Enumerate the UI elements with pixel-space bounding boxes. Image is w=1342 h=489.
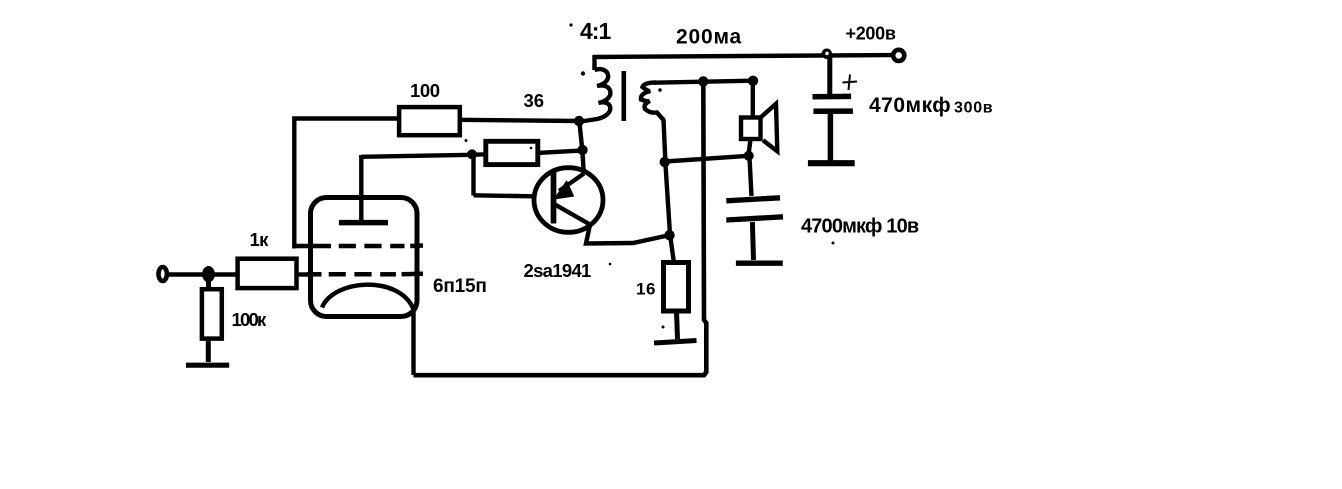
resistor R100k box	[202, 289, 222, 338]
ground under C2	[736, 261, 783, 266]
capacitor C2 lower lead	[752, 222, 753, 260]
svg-text:100: 100	[410, 80, 440, 101]
svg-text:16: 16	[636, 280, 656, 299]
node: primary bottom / 100 right	[574, 116, 584, 126]
transformer T1 primary winding	[581, 69, 610, 121]
node: anode / base junction	[467, 149, 477, 159]
speck	[658, 88, 662, 92]
node: B+ junction	[822, 49, 833, 60]
transistor Q1 2sa1941 circle	[534, 168, 603, 233]
terminal: +200v	[893, 50, 904, 61]
wire: base branch right to transistor	[474, 195, 534, 196]
node: secondary bottom	[660, 157, 670, 167]
transistor Q1 base bar	[551, 173, 557, 224]
wire: speaker bottom to secondary bottom	[665, 156, 749, 162]
capacitor C2 plate bottom	[726, 217, 783, 220]
transistor Q1 emitter line	[559, 174, 584, 192]
resistor R100k lead bottom	[206, 339, 211, 362]
svg-text:4:1: 4:1	[580, 18, 611, 44]
wire: secondary top to speaker column	[654, 81, 753, 83]
speck	[569, 23, 572, 26]
speaker lead top	[751, 81, 755, 118]
wire: secondary bottom down to emitter node	[665, 162, 670, 235]
transistor Q1 collector line	[555, 205, 590, 225]
tube V1 cathode arc	[322, 285, 415, 311]
wire: long right-hand return (vertical + bottom)	[414, 82, 707, 376]
wire: anode horizontal	[361, 155, 472, 157]
speck	[832, 242, 835, 245]
resistor R100k lead top	[206, 276, 211, 289]
transformer T1 primary lead from rail	[592, 55, 596, 70]
svg-text:6п15п: 6п15п	[433, 276, 487, 297]
wire: R36 left stub	[472, 152, 486, 157]
resistor R16 lead top	[670, 235, 674, 264]
tube V1 control grid (dashed)	[307, 272, 423, 277]
wire: top mid rail from left column to 100	[294, 119, 399, 249]
svg-text:470мкф: 470мкф	[869, 94, 951, 117]
speaker lead bottom	[749, 139, 751, 155]
resistor R100 box	[399, 107, 460, 135]
wire: R100 right to primary-bottom node	[460, 120, 579, 121]
capacitor C1 polarity plus	[843, 82, 858, 83]
speck	[465, 139, 468, 142]
resistor R1k box	[238, 259, 297, 288]
node: emitter junction	[664, 230, 674, 240]
speaker box	[741, 118, 761, 140]
resistor R16 lead bottom	[677, 311, 678, 339]
wire: emitter lead up to 36 node	[582, 150, 584, 174]
wire: cathode lead down to bottom rail	[411, 306, 415, 375]
speck	[530, 147, 533, 150]
svg-text:100к: 100к	[232, 309, 267, 330]
wire: anode lead into tube	[359, 155, 363, 221]
wire: 36 node up to primary bottom node	[579, 121, 582, 150]
transformer T1 secondary winding	[641, 83, 665, 161]
resistor R36 box	[486, 141, 538, 164]
svg-text:300в: 300в	[954, 100, 993, 117]
speck	[662, 326, 665, 329]
capacitor C2 plate top	[726, 198, 780, 201]
node: speaker bottom	[744, 151, 754, 161]
input terminal	[159, 267, 167, 281]
tube V1 screen grid (dashed)	[293, 243, 423, 248]
transformer T1 core	[622, 71, 627, 121]
svg-text:4700мкф 10в: 4700мкф 10в	[801, 216, 919, 238]
resistor R16 box	[664, 263, 689, 312]
speck	[581, 71, 585, 75]
transistor Q1 emitter arrowhead	[556, 183, 573, 199]
ground under C1	[808, 160, 855, 166]
node: speaker top	[748, 76, 758, 86]
ground under R100k	[186, 363, 229, 368]
wire: R36 right to emitter-top node	[537, 151, 581, 153]
capacitor C1 plate bottom	[813, 108, 853, 114]
svg-text:2sa1941: 2sa1941	[524, 260, 592, 281]
node: emitter top / 36 right	[577, 145, 587, 155]
tube V1 anode plate	[339, 220, 388, 226]
svg-text:200ма: 200ма	[676, 26, 742, 49]
node: secondary top / output rail	[698, 76, 708, 86]
tube V1 envelope	[311, 198, 418, 317]
svg-text:+200в: +200в	[846, 24, 896, 44]
speck	[609, 263, 612, 266]
node: input junction	[202, 266, 215, 282]
svg-text:36: 36	[524, 90, 545, 111]
svg-text:1к: 1к	[250, 229, 270, 250]
wire: base branch down	[471, 157, 475, 196]
ground under R16	[654, 341, 697, 344]
capacitor C2 4700mkf top lead	[750, 158, 752, 197]
wire: collector lead down and right	[586, 225, 670, 244]
capacitor C1 plate top	[813, 94, 852, 100]
wire: +200v supply rail	[593, 55, 893, 57]
wire: input to R1k	[168, 272, 238, 276]
capacitor C1 lower lead	[828, 113, 834, 161]
wire: R1k to tube grid	[297, 272, 312, 276]
speaker horn	[761, 104, 778, 152]
capacitor C1 470mkf lead	[827, 56, 832, 94]
